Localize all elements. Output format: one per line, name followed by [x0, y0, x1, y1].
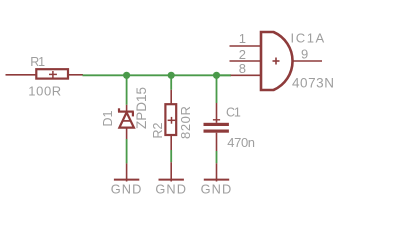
resistor R2	[151, 90, 193, 150]
wire main net	[83, 74, 232, 76]
svg-text:R2: R2	[151, 122, 165, 138]
svg-text:820R: 820R	[178, 106, 193, 139]
node junction 2	[168, 72, 175, 79]
svg-text:C1: C1	[226, 106, 241, 120]
svg-text:GND: GND	[155, 182, 187, 197]
capacitor C1	[204, 103, 255, 151]
svg-text:1: 1	[239, 31, 246, 46]
svg-text:8: 8	[239, 61, 246, 76]
diode D1 ZPD15	[101, 87, 149, 139]
wire R2 to GND	[170, 150, 172, 162]
svg-text:GND: GND	[201, 182, 233, 197]
svg-text:R1: R1	[30, 55, 45, 69]
wire to C1	[216, 75, 218, 103]
gate body	[261, 32, 293, 90]
svg-text:9: 9	[301, 47, 308, 62]
pin 2	[230, 60, 262, 62]
pin 8	[231, 74, 261, 76]
svg-text:ZPD15: ZPD15	[134, 87, 149, 129]
svg-text:100R: 100R	[28, 84, 61, 99]
svg-text:D1: D1	[101, 110, 115, 126]
pin 1	[230, 45, 262, 47]
wire to D1	[126, 75, 128, 105]
svg-text:IC1A: IC1A	[291, 31, 326, 46]
AND gate IC1A 4073N	[230, 31, 335, 91]
svg-text:2: 2	[239, 47, 246, 62]
svg-text:470n: 470n	[227, 135, 254, 150]
wire C1 to GND	[216, 151, 218, 163]
wire to pin 8	[217, 74, 232, 76]
ground GND 3	[201, 163, 233, 196]
wire to R2	[170, 75, 172, 90]
resistor R1	[6, 55, 84, 99]
svg-text:GND: GND	[111, 182, 143, 197]
node junction 3	[213, 72, 220, 79]
node junction 1	[123, 72, 130, 79]
svg-text:4073N: 4073N	[292, 76, 335, 91]
ground GND 2	[155, 162, 187, 196]
ground GND 1	[111, 163, 143, 196]
wire D1 to GND	[126, 139, 128, 163]
pin 9 output	[293, 60, 322, 62]
